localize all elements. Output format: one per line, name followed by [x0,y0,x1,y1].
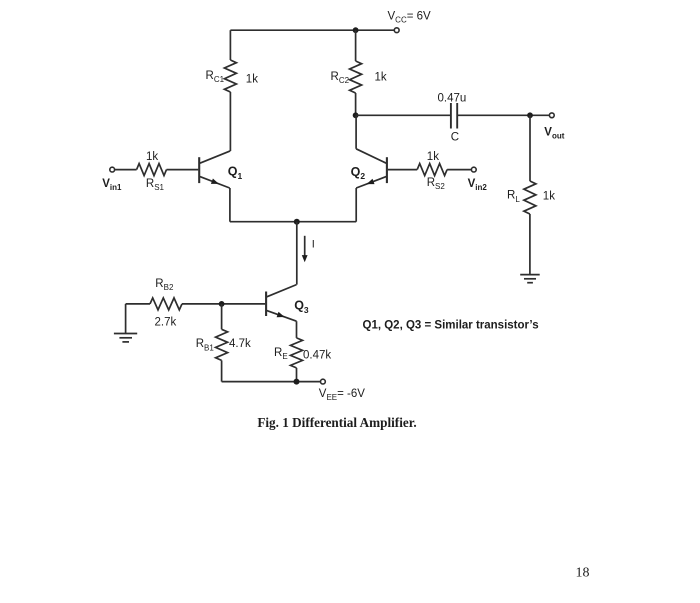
svg-text:VEE= -6V: VEE= -6V [319,388,365,402]
svg-text:0.47k: 0.47k [303,349,331,361]
wire Vin1 to RS1 [115,169,137,171]
wire junction to RB1 [221,304,223,329]
terminal Vout [549,113,554,118]
svg-text:Q2: Q2 [351,165,366,181]
terminal VCC [394,28,399,33]
transistor Q3 collector [267,285,297,297]
svg-text:1k: 1k [427,151,439,163]
svg-text:1k: 1k [146,151,158,163]
resistor RS1 [137,164,167,176]
wire RC2 to output node [355,93,357,115]
transistor Q3 base bar [265,292,267,317]
resistor RB2 [150,298,182,310]
svg-text:4.7k: 4.7k [229,338,251,350]
svg-text:2.7k: 2.7k [155,317,177,329]
svg-text:RB2: RB2 [155,278,174,292]
svg-text:I: I [312,238,315,250]
node Q3 base junction [219,301,225,307]
terminal VEE [321,379,326,384]
svg-text:Q3: Q3 [294,299,309,315]
wire capacitor to Vout [457,114,549,116]
wire Vout to RL [529,115,531,181]
capacitor C plate left [450,103,452,129]
svg-text:1k: 1k [375,71,387,83]
transistor Q2 emitter [356,177,386,188]
wire RB2 to Q3 base [182,303,265,305]
svg-text:18: 18 [576,566,590,581]
resistor RE [291,338,303,368]
transistor Q2 collector [356,149,386,163]
arrow current I [304,236,306,257]
node VCC-rail junction [353,27,359,33]
wire top VCC rail [230,29,394,31]
resistor RB1 [216,329,228,360]
capacitor C plate right [456,103,458,129]
transistor Q3 emitter arrow [277,312,285,318]
wire Q3 emitter to RE [296,321,298,338]
wire bottom VEE rail [222,381,321,383]
svg-text:RC2: RC2 [331,71,350,85]
resistor RS2 [417,164,447,176]
svg-text:RL: RL [507,190,520,204]
terminal Vin2 [471,167,476,172]
svg-text:Fig. 1 Differential Amplifier.: Fig. 1 Differential Amplifier. [257,415,416,430]
svg-text:RC1: RC1 [206,70,225,84]
wire Q2 base to RS2 [388,169,417,171]
resistor RC2 [350,61,362,93]
svg-text:RE: RE [274,347,288,361]
transistor Q1 collector [200,151,230,163]
node emitter junction [294,219,300,225]
transistor Q2 emitter arrow [367,179,375,184]
wire output node to capacitor [356,114,451,116]
ground RL [520,275,540,283]
wire emitter rail [230,221,356,223]
node VEE junction [294,379,300,385]
node Vout junction [527,112,533,118]
transistor Q2 base bar [386,157,388,183]
svg-text:Vin2: Vin2 [468,178,488,192]
svg-text:Q1: Q1 [228,164,243,180]
resistor RL [524,181,536,214]
svg-text:1k: 1k [246,73,258,85]
wire RS2 to Vin2 [447,169,471,171]
node collector Q2 / output [353,112,359,118]
svg-text:Vin1: Vin1 [102,178,122,192]
terminal Vin1 [110,167,115,172]
transistor Q1 base bar [198,157,200,183]
svg-text:1k: 1k [543,191,555,203]
svg-text:RS2: RS2 [427,177,446,191]
svg-text:Q1, Q2, Q3 = Similar transisto: Q1, Q2, Q3 = Similar transistor’s [363,319,539,331]
wire VCC rail to RC2 [355,30,357,61]
transistor Q1 emitter arrow [211,179,219,184]
wire RB2 down to ground [125,304,127,334]
svg-text:VCC= 6V: VCC= 6V [388,10,432,24]
wire RB1 to bottom rail [221,360,223,381]
resistor RC1 [224,60,236,92]
svg-text:Vout: Vout [544,127,564,141]
svg-text:C: C [451,132,459,144]
wire RL to ground [529,214,531,275]
svg-text:RB1: RB1 [196,338,215,352]
transistor Q3 emitter [267,311,297,322]
svg-text:RS1: RS1 [146,178,165,192]
wire Q1 emitter down [229,188,231,222]
wire RC1 to Q1 collector [229,92,231,151]
wire Q2 emitter down [355,188,357,222]
svg-text:0.47u: 0.47u [438,93,467,105]
wire tail down to Q3 [296,222,298,285]
transistor Q1 emitter [200,177,230,188]
wire Q2 collector up [355,115,357,149]
wire VCC rail to RC1 [229,30,231,60]
ground RB2 [114,334,137,342]
wire RS1 to Q1 base [167,169,199,171]
wire RB2 left [126,303,150,305]
wire RE to bottom rail [296,368,298,382]
